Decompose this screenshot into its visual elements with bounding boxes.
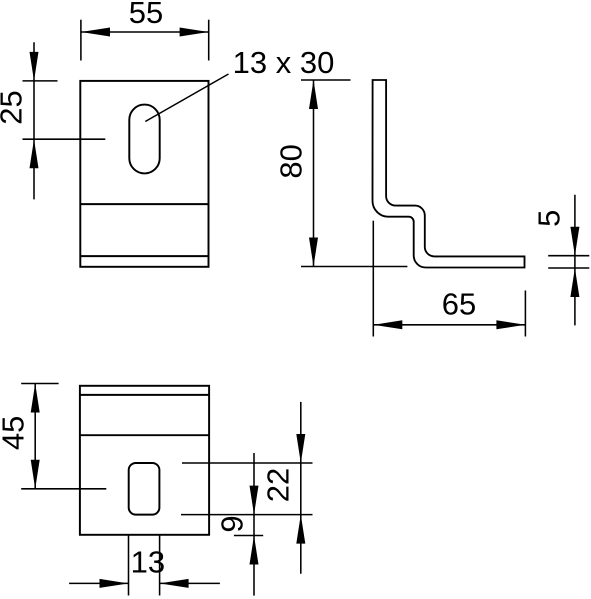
svg-text:22: 22 [260, 468, 295, 502]
svg-text:65: 65 [442, 287, 476, 322]
svg-text:13 x 30: 13 x 30 [233, 45, 335, 80]
svg-text:25: 25 [0, 90, 29, 124]
svg-text:5: 5 [531, 210, 566, 227]
svg-text:45: 45 [0, 416, 31, 450]
svg-text:80: 80 [274, 144, 309, 178]
svg-text:55: 55 [129, 0, 163, 30]
svg-text:13: 13 [131, 544, 165, 579]
svg-text:9: 9 [215, 515, 250, 532]
